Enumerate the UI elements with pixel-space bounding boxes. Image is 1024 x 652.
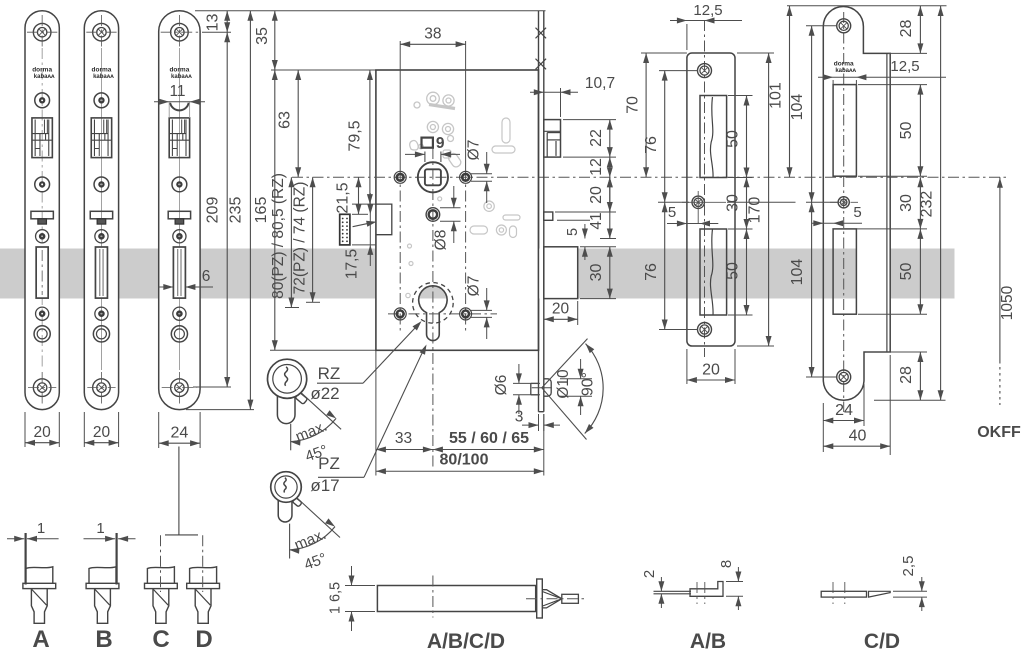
- extension bottom screw C/D: [193, 386, 231, 388]
- faceplate A ring: [34, 326, 50, 342]
- svg-text:A/B/C/D: A/B/C/D: [427, 630, 505, 652]
- cylinder PZ euro profile stem: [278, 495, 292, 522]
- post centerline right: [465, 170, 467, 333]
- extension body top: [271, 69, 376, 71]
- cylinder hole PZ profile: [419, 286, 447, 341]
- strike plate A/B centerline: [704, 20, 706, 357]
- svg-text:ø17: ø17: [310, 476, 339, 495]
- svg-text:55 / 60 / 65: 55 / 60 / 65: [449, 430, 529, 447]
- faceplate C/D hole 2: [172, 177, 187, 192]
- strike plate C/D bottom screw: [837, 370, 851, 384]
- section D: [190, 567, 217, 584]
- svg-text:kabaᴀᴀ: kabaᴀᴀ: [34, 74, 55, 80]
- faceplate A top screw: [33, 23, 51, 41]
- case centerline horizontal: [292, 176, 1009, 178]
- dim 5 strike A/B: [667, 223, 718, 225]
- dim 30 strike A/B: [746, 177, 748, 229]
- faceplate B hole 3: [95, 230, 108, 243]
- dim 165: [274, 70, 276, 350]
- cylinder RZ round profile body: [268, 359, 307, 398]
- svg-text:A/B: A/B: [690, 630, 726, 652]
- svg-text:1050: 1050: [999, 285, 1016, 320]
- leader PZ to keyhole: [318, 476, 364, 478]
- dim 20 aux latch: [555, 211, 616, 213]
- dim 50 lower strike C/D: [856, 228, 927, 230]
- svg-text:8: 8: [718, 560, 735, 568]
- cylinder PZ euro profile cam: [292, 498, 302, 507]
- dim 80/100: [376, 470, 544, 472]
- dim 104 lower: [806, 376, 837, 378]
- dim 20 under plate B: [83, 412, 85, 447]
- dim 3 strip thickness: [538, 414, 540, 431]
- dim 232: [940, 6, 942, 400]
- faceplate A hole 2: [35, 177, 50, 192]
- dim 20 strike A/B width: [686, 349, 688, 384]
- screw post top-right: [460, 171, 472, 183]
- extension plate bottom: [186, 409, 254, 411]
- dim 12,5 strike A/B: [686, 24, 688, 50]
- svg-text:33: 33: [395, 430, 412, 447]
- svg-text:24: 24: [171, 425, 189, 442]
- deadbolt side view: [544, 247, 578, 299]
- svg-text:dorma: dorma: [32, 67, 52, 74]
- strike plate C/D lower cutout: [833, 229, 856, 314]
- strip cross mark top: [536, 28, 547, 39]
- svg-text:70: 70: [625, 96, 642, 114]
- internal mechanism (gray): [427, 92, 440, 105]
- svg-text:28: 28: [898, 366, 915, 384]
- svg-text:12,5: 12,5: [890, 58, 919, 75]
- leader arrow to notch: [353, 222, 375, 227]
- faceplate C/D deadbolt slot: [168, 211, 190, 219]
- svg-text:6: 6: [202, 268, 211, 285]
- cross-section latch stem: [562, 594, 579, 603]
- svg-text:B: B: [95, 626, 112, 652]
- svg-text:C: C: [152, 626, 169, 652]
- dim 30 strike C/D: [919, 177, 921, 229]
- screw post top-left: [394, 171, 406, 183]
- faceplate A outline: [25, 11, 59, 410]
- section A/B angle: [690, 582, 723, 597]
- svg-text:40: 40: [849, 428, 867, 445]
- 90 degree swing arc: [532, 387, 552, 389]
- svg-text:104: 104: [789, 259, 806, 286]
- dim 50 upper strike A/B: [728, 95, 753, 97]
- svg-text:50: 50: [898, 122, 915, 140]
- faceplate B outline: [84, 11, 118, 410]
- dim 28 top strike C/D: [888, 52, 927, 54]
- svg-text:20: 20: [33, 424, 51, 441]
- latch tail guide (gray): [503, 215, 520, 220]
- svg-text:A: A: [32, 626, 49, 652]
- cylinder PZ euro profile rotation limit: [289, 524, 291, 559]
- dim diam 8: [440, 207, 461, 209]
- cylinder RZ round profile rotation limit: [290, 424, 292, 451]
- cylinder PZ euro profile body: [271, 472, 302, 503]
- faceplate A hole 1: [35, 93, 50, 108]
- svg-text:1 6,5: 1 6,5: [328, 582, 344, 614]
- strike plate C/D middle screw: [838, 197, 849, 208]
- extension line plate tops: [195, 10, 546, 12]
- svg-text:Ø7: Ø7: [466, 276, 483, 297]
- faceplate C/D long slot: [173, 247, 185, 298]
- svg-text:D: D: [195, 626, 212, 652]
- svg-text:Ø6: Ø6: [493, 375, 510, 396]
- svg-text:76: 76: [643, 136, 660, 154]
- extension notch top: [352, 203, 376, 205]
- connector notch on case edge: [376, 204, 392, 235]
- section A/B screw axes: [696, 582, 698, 604]
- strike plate A/B bolt cutout: [700, 229, 727, 315]
- svg-text:72(PZ) / 74 (RZ): 72(PZ) / 74 (RZ): [291, 182, 308, 295]
- svg-text:kabaᴀᴀ: kabaᴀᴀ: [835, 68, 856, 74]
- svg-text:50: 50: [898, 263, 915, 281]
- strike plate C/D centerline: [843, 12, 845, 412]
- cross-section latch axis: [526, 598, 585, 600]
- section C/D screw axes: [832, 582, 834, 604]
- section A thin plate: [26, 567, 53, 584]
- svg-text:28: 28: [898, 20, 915, 38]
- svg-text:1: 1: [37, 520, 45, 537]
- dim 5 strike C/D: [812, 222, 862, 224]
- post centerline left: [399, 170, 401, 333]
- faceplate C/D ring: [171, 326, 187, 342]
- faceplate B latch cutout: [91, 118, 111, 158]
- faceplate A centerline: [41, 48, 43, 370]
- svg-text:20: 20: [588, 186, 605, 204]
- case centerline lower horizontal: [388, 313, 497, 315]
- svg-text:24: 24: [835, 402, 853, 419]
- faceplate strip side view: [539, 249, 544, 299]
- dim 5 small: [557, 219, 590, 221]
- svg-text:30: 30: [725, 194, 742, 212]
- svg-text:20: 20: [702, 362, 720, 379]
- strike plate A/B middle screw: [692, 196, 704, 208]
- svg-text:OKFF: OKFF: [977, 424, 1021, 441]
- faceplate B ring: [93, 326, 109, 342]
- dim 101: [727, 201, 796, 203]
- svg-text:170: 170: [747, 197, 764, 224]
- svg-text:dorma: dorma: [169, 67, 189, 74]
- dim 41: [609, 177, 611, 238]
- dim 30 deadbolt: [580, 246, 616, 248]
- strike plate C/D folded edge: [886, 53, 888, 352]
- cylinder circle RZ dashed: [413, 283, 454, 324]
- dim 40 strike C/D: [889, 355, 891, 455]
- svg-text:3: 3: [515, 409, 524, 426]
- strike plate A/B top screw: [698, 64, 712, 78]
- svg-text:10,7: 10,7: [585, 75, 615, 92]
- svg-text:30: 30: [588, 264, 605, 282]
- strike plate C/D upper cutout: [833, 85, 856, 177]
- svg-text:209: 209: [204, 197, 221, 224]
- faceplate B hole 1: [94, 93, 109, 108]
- dim 1050 floor line: [999, 177, 1001, 361]
- dim 6 at plate C/D slot: [158, 286, 173, 288]
- svg-text:80(PZ) / 80,5 (RZ): 80(PZ) / 80,5 (RZ): [270, 173, 287, 299]
- section A/B thin plate: [654, 590, 692, 592]
- dim 11 over plate C/D latch: [154, 101, 205, 103]
- strike plate C/D top screw: [837, 19, 851, 33]
- dim 50 upper strike C/D: [858, 84, 927, 86]
- dim 16,5: [345, 585, 375, 587]
- svg-text:165: 165: [253, 197, 270, 224]
- faceplate B deadbolt slot: [90, 211, 112, 219]
- svg-text:80/100: 80/100: [440, 452, 489, 469]
- svg-text:232: 232: [919, 191, 936, 218]
- svg-text:dorma: dorma: [834, 61, 854, 68]
- leader RZ to cylinder hole: [317, 382, 363, 384]
- extension strike C/D top: [787, 5, 947, 7]
- section B thin plate: [89, 567, 116, 584]
- faceplate B hole 2: [94, 177, 109, 192]
- faceplate C/D centerline: [178, 48, 180, 370]
- faceplate B hole 4: [95, 307, 108, 320]
- svg-text:79,5: 79,5: [347, 120, 364, 151]
- dim 8 section A/B: [726, 581, 743, 583]
- cross-section latch tip: [542, 590, 562, 608]
- svg-text:63: 63: [277, 111, 294, 129]
- extension body bottom: [270, 349, 376, 351]
- dim 1 section B: [84, 538, 116, 540]
- strike plate A/B outline: [687, 53, 735, 346]
- cylinder RZ round profile cam: [295, 392, 308, 404]
- svg-text:35: 35: [254, 27, 271, 45]
- dim 10,7: [560, 88, 562, 117]
- faceplate C/D top screw: [171, 23, 189, 41]
- dim 2,5 section C/D: [893, 590, 927, 592]
- dim 20 under plate A: [24, 412, 26, 447]
- svg-text:41: 41: [588, 212, 605, 229]
- faceplate A deadbolt slot: [31, 211, 53, 219]
- dim diam 7 bottom: [471, 309, 492, 311]
- dim 12,5 strike C/D: [832, 80, 834, 87]
- faceplate B long slot: [95, 247, 107, 298]
- screw post bottom-right: [460, 308, 472, 320]
- svg-text:Ø7: Ø7: [466, 140, 483, 161]
- dim 76 lower: [659, 329, 698, 331]
- dim 35: [274, 11, 276, 70]
- faceplate B top screw: [93, 23, 111, 41]
- svg-text:PZ: PZ: [318, 454, 340, 473]
- dim 209: [226, 32, 228, 387]
- dim diam 10: [560, 378, 592, 380]
- dim 17,5: [369, 193, 371, 266]
- svg-text:21,5: 21,5: [335, 182, 352, 213]
- svg-text:12: 12: [588, 158, 605, 176]
- svg-text:13: 13: [205, 14, 222, 32]
- dim 104 upper: [806, 25, 837, 27]
- dim square 9: [422, 138, 433, 148]
- svg-text:22: 22: [588, 129, 605, 147]
- svg-text:17,5: 17,5: [344, 249, 361, 279]
- dim 22 latch: [563, 119, 616, 121]
- svg-text:38: 38: [424, 26, 441, 43]
- connector socket: [340, 214, 350, 245]
- strip cross mark 2: [536, 59, 547, 70]
- faceplate C/D bottom screw: [171, 379, 189, 397]
- svg-text:ø22: ø22: [310, 384, 339, 403]
- spindle follower: [418, 162, 448, 192]
- svg-text:RZ: RZ: [318, 364, 341, 383]
- dim 38 at top: [399, 41, 401, 170]
- svg-text:12,5: 12,5: [693, 2, 722, 19]
- dim 50 lower strike A/B: [728, 228, 753, 230]
- case centerline vertical main: [432, 148, 434, 467]
- dim 76 upper: [659, 70, 698, 72]
- svg-text:kabaᴀᴀ: kabaᴀᴀ: [171, 74, 192, 80]
- svg-text:50: 50: [725, 262, 742, 280]
- section C/D flat bar: [821, 591, 866, 597]
- svg-text:5: 5: [565, 228, 581, 236]
- dim 24 strike C/D: [822, 403, 824, 452]
- svg-text:C/D: C/D: [864, 630, 900, 652]
- svg-text:20: 20: [552, 301, 570, 318]
- dim 2 section A/B: [660, 577, 662, 591]
- dim 21,5: [358, 177, 360, 214]
- faceplate B bottom screw: [93, 379, 111, 397]
- faceplate B centerline: [100, 48, 102, 370]
- dim 235: [249, 11, 251, 410]
- dim 20 deadbolt throw: [577, 301, 579, 325]
- screw post bottom-left: [394, 308, 406, 320]
- faceplate C/D latch head arc: [170, 103, 189, 111]
- svg-text:dorma: dorma: [92, 67, 112, 74]
- lock case body: [376, 70, 539, 350]
- strike plate A/B latch cutout: [700, 96, 727, 178]
- svg-text:235: 235: [227, 197, 244, 224]
- dim 70: [641, 52, 687, 54]
- extension top screw C/D: [202, 31, 231, 33]
- faceplate A latch cutout: [32, 118, 52, 158]
- cylinder RZ round profile stem: [277, 389, 295, 424]
- dim 12: [609, 157, 611, 177]
- dim 72(PZ): [312, 177, 314, 302]
- dim 63: [297, 70, 299, 177]
- aux latch side view: [544, 212, 553, 220]
- svg-text:30: 30: [898, 194, 915, 212]
- faceplate A hole 3: [36, 230, 49, 243]
- svg-text:5: 5: [668, 204, 676, 221]
- auxiliary pin inside: [531, 382, 539, 384]
- dim diam 7 top: [471, 173, 492, 175]
- dim 13: [226, 11, 228, 33]
- lock cross-section body: [377, 586, 535, 612]
- door section band: [0, 249, 25, 299]
- svg-text:2: 2: [641, 570, 658, 578]
- dim 79,5: [369, 70, 371, 204]
- dim 24 under plate C/D: [158, 412, 160, 448]
- latch bolt side view: [544, 120, 561, 158]
- cross-section cylinder axis: [432, 576, 434, 618]
- strike plate C/D outline: [823, 6, 890, 400]
- dim 80(PZ): [290, 177, 292, 307]
- svg-text:5: 5: [853, 204, 861, 221]
- section C/D link lines: [178, 447, 180, 535]
- faceplate C/D hole 3: [173, 230, 186, 243]
- faceplate C/D latch cutout: [169, 118, 189, 158]
- svg-text:Ø10: Ø10: [555, 369, 572, 399]
- svg-text:76: 76: [643, 263, 660, 281]
- faceplate C/D outline: [159, 11, 200, 410]
- faceplate A long slot: [36, 247, 48, 298]
- svg-text:9: 9: [436, 135, 445, 152]
- dim 1 section A: [7, 538, 24, 540]
- svg-text:kabaᴀᴀ: kabaᴀᴀ: [93, 74, 114, 80]
- roller pin: [544, 379, 551, 396]
- svg-text:50: 50: [725, 130, 742, 148]
- svg-text:11: 11: [169, 83, 185, 100]
- section C: [147, 567, 174, 584]
- dim 33 and 55/60/65: [375, 351, 377, 476]
- dim 28 bottom strike C/D: [866, 351, 927, 353]
- svg-text:Ø8: Ø8: [433, 230, 450, 251]
- cross-section faceplate bar: [537, 579, 543, 618]
- svg-text:90°: 90°: [580, 372, 597, 396]
- dim 170: [737, 52, 774, 54]
- svg-text:20: 20: [93, 424, 111, 441]
- center hole: [426, 208, 440, 222]
- svg-text:1: 1: [96, 520, 104, 537]
- faceplate A bottom screw: [33, 379, 51, 397]
- faceplate C/D hole 4: [173, 307, 186, 320]
- svg-text:2,5: 2,5: [900, 556, 917, 577]
- faceplate A hole 4: [36, 307, 49, 320]
- svg-text:101: 101: [768, 82, 785, 109]
- strike plate A/B bottom screw: [698, 323, 712, 337]
- svg-text:104: 104: [789, 94, 806, 121]
- dim diam 6: [513, 382, 540, 384]
